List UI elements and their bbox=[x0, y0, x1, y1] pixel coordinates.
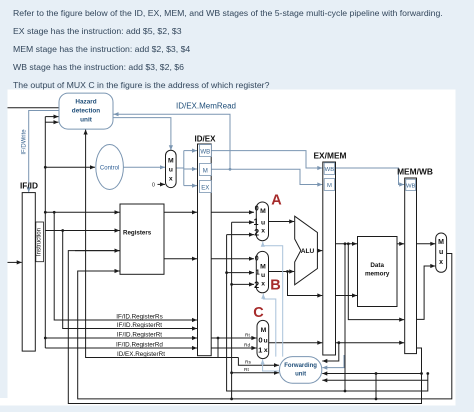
wire zero mux output to ID/EX control fields bbox=[176, 149, 197, 188]
label Rs at forwarding input bbox=[245, 360, 251, 366]
wire ID/EX.RegisterRt to mux C input 0 bbox=[211, 336, 256, 340]
label C red bbox=[253, 305, 264, 321]
arrow write register into Registers bbox=[75, 249, 120, 253]
mux C bbox=[257, 320, 269, 358]
wire mux A output to ALU bbox=[269, 219, 295, 223]
svg-text:IF/ID.RegisterRt: IF/ID.RegisterRt bbox=[117, 322, 162, 329]
wire PCWrite from left edge to hazard unit bbox=[8, 107, 60, 109]
svg-text:M: M bbox=[261, 327, 267, 334]
wire ALU result MEM/WB to WB mux input 1 bbox=[417, 264, 436, 320]
svg-text:1: 1 bbox=[256, 268, 260, 277]
register MEM/WB bbox=[397, 166, 433, 353]
label A red bbox=[271, 193, 282, 209]
wire IF/DWrite hazard unit to IF/ID write enable bbox=[27, 111, 59, 193]
svg-text:A: A bbox=[271, 193, 282, 209]
wire IF/ID.RegisterRt to ID/EX bbox=[45, 336, 197, 340]
wire WB forward vertical bbox=[230, 222, 233, 399]
wire opcode to Control bbox=[45, 165, 95, 169]
label IF/ID.RegisterRt line3 bbox=[117, 331, 162, 338]
svg-text:1: 1 bbox=[253, 217, 258, 227]
register ID/EX bbox=[195, 134, 217, 355]
svg-text:2: 2 bbox=[254, 280, 259, 290]
svg-text:M: M bbox=[260, 208, 266, 215]
wire MEM/WB.RegisterRd return to forwarding unit bbox=[322, 371, 421, 375]
white margin notch bottom-left bbox=[0, 398, 8, 406]
wire EX/MEM forward wrap bbox=[225, 235, 345, 391]
label ID/EX.RegisterRt line5 bbox=[117, 351, 165, 358]
svg-text:M: M bbox=[260, 263, 266, 270]
wire Control to zero mux bbox=[123, 165, 165, 169]
svg-text:IF/ID: IF/ID bbox=[20, 181, 38, 191]
svg-text:C: C bbox=[253, 305, 264, 321]
svg-text:ID/EX.RegisterRt: ID/EX.RegisterRt bbox=[117, 351, 165, 358]
label 0 constant bbox=[152, 183, 155, 189]
wire write-back data wrap-around bottom bbox=[78, 254, 452, 401]
wire IF/ID.RegisterRd to ID/EX bbox=[45, 346, 197, 350]
svg-text:MEM/WB: MEM/WB bbox=[397, 166, 433, 176]
wire ALU result into EX/MEM bbox=[317, 249, 322, 253]
wire WB stage register wrap into forwarding unit bbox=[322, 378, 428, 382]
wire store data EX/MEM to data memory write data bbox=[336, 293, 358, 297]
label Rt at mux C input 0 bbox=[245, 333, 250, 339]
mux C input digits bbox=[258, 336, 263, 355]
wire ID/EX.MemRead feedback to hazard unit bbox=[114, 112, 232, 171]
svg-text:ID/EX.MemRead: ID/EX.MemRead bbox=[176, 102, 236, 111]
svg-text:Registers: Registers bbox=[123, 229, 152, 236]
wire instruction to hazard unit input 2 bbox=[45, 120, 58, 124]
wire ID/EX M control to EX/MEM bbox=[211, 169, 322, 186]
svg-text:u: u bbox=[261, 272, 265, 279]
svg-text:Data: Data bbox=[370, 262, 384, 269]
svg-text:u: u bbox=[169, 166, 173, 173]
svg-text:Forwarding: Forwarding bbox=[284, 363, 317, 369]
label B red bbox=[270, 278, 280, 294]
svg-text:Control: Control bbox=[100, 166, 119, 172]
wire Registers read data 1 to ID/EX bbox=[164, 210, 197, 214]
svg-text:unit: unit bbox=[295, 372, 306, 378]
mux B input digits bbox=[254, 256, 260, 290]
wire EX/MEM RegisterRd to MEM/WB bbox=[336, 341, 405, 345]
wire ForwardA select to mux A bbox=[261, 242, 283, 357]
wire ID/EX.RegisterRd to mux C input 1 bbox=[211, 346, 256, 350]
svg-text:x: x bbox=[264, 347, 268, 354]
wire EX/MEM forward wrap right extension bbox=[344, 372, 430, 392]
svg-text:EX/MEM: EX/MEM bbox=[313, 150, 346, 160]
hazard detection unit U-HAZ bbox=[59, 93, 113, 129]
write-back mux bbox=[436, 233, 447, 272]
wire read register 2 (Rt) into Registers bbox=[45, 228, 119, 232]
wire IF/ID.RegisterRs tap bbox=[54, 212, 197, 322]
svg-text:0: 0 bbox=[258, 336, 262, 345]
svg-text:x: x bbox=[261, 280, 265, 287]
svg-text:Rt: Rt bbox=[244, 367, 249, 373]
register EX/MEM bbox=[313, 150, 346, 355]
wire ID/EX WB control to EX/MEM bbox=[211, 151, 322, 171]
svg-text:Rs: Rs bbox=[245, 360, 251, 366]
ALU U-ALU bbox=[295, 216, 318, 285]
arrow write data into Registers bbox=[84, 269, 120, 273]
wire mux C output to EX/MEM bbox=[269, 341, 323, 345]
wire ALU result EX/MEM to data memory address bbox=[336, 242, 358, 246]
wire EX/MEM M control down to forwarding unit bbox=[322, 355, 344, 370]
control unit ellipse bbox=[96, 145, 124, 190]
svg-text:x: x bbox=[261, 228, 265, 235]
wire read register 1 (Rs) into Registers bbox=[45, 210, 119, 214]
wire instruction to hazard unit input 1 bbox=[45, 115, 58, 119]
wire ID/EX read data 1 to mux A input 0 bbox=[211, 210, 254, 214]
wire ID/EX read data 2 to mux B input 0 bbox=[211, 257, 254, 261]
ID/EX EX field bbox=[199, 181, 211, 193]
svg-text:WB: WB bbox=[200, 148, 210, 155]
wire Registers read data 2 to ID/EX bbox=[164, 257, 197, 261]
wire mux C select bbox=[261, 359, 280, 371]
svg-text:Rt: Rt bbox=[245, 333, 250, 339]
label ID/EX.MemRead bbox=[176, 102, 236, 111]
wire store data to EX/MEM bbox=[288, 272, 323, 298]
question text block bbox=[13, 4, 443, 22]
svg-text:u: u bbox=[439, 249, 443, 256]
svg-text:0: 0 bbox=[255, 256, 259, 263]
svg-text:ALU: ALU bbox=[301, 248, 315, 255]
wire ID/EX.RegisterRs to forwarding unit bbox=[238, 358, 279, 368]
wire mux B output to ALU bbox=[269, 269, 295, 273]
label IF/ID.RegisterRt line2 bbox=[117, 322, 162, 329]
label Rd at mux C input 1 bbox=[244, 343, 250, 349]
register IF/ID bbox=[20, 181, 38, 351]
svg-text:M: M bbox=[203, 167, 208, 174]
control zero mux bbox=[166, 150, 177, 187]
wire write register number wrap-around bottom bbox=[68, 251, 423, 404]
label IF/DWrite bbox=[22, 129, 28, 155]
ID/EX M field bbox=[199, 164, 211, 176]
svg-text:IF/ID.RegisterRs: IF/ID.RegisterRs bbox=[116, 313, 163, 320]
svg-text:2: 2 bbox=[254, 228, 259, 238]
svg-text:detection: detection bbox=[72, 108, 101, 115]
wire WB forward to mux A input 1 bbox=[232, 220, 254, 224]
svg-text:x: x bbox=[169, 175, 173, 182]
svg-text:Instruction: Instruction bbox=[36, 228, 43, 256]
wire MEM/WB.RegisterRd link down to write-back wrap bbox=[375, 374, 377, 399]
wire MEM/WB read data to WB mux input 0 bbox=[417, 242, 436, 246]
svg-text:EX: EX bbox=[201, 184, 209, 191]
EX/MEM M field bbox=[324, 179, 334, 191]
wire EX/MEM WB control to MEM/WB bbox=[336, 168, 405, 187]
svg-text:WB: WB bbox=[406, 184, 416, 190]
label IF/ID.RegisterRs line1 bbox=[116, 313, 163, 320]
svg-text:Hazard: Hazard bbox=[75, 99, 96, 106]
wire ID/EX.RegisterRt extension to forwarding tap bbox=[218, 357, 238, 359]
wire ALU result under data memory to MEM/WB bbox=[348, 244, 404, 322]
wire EX/MEM forward to mux B input 1 bbox=[227, 271, 254, 275]
wire EX/MEM forward to mux A input 2 bbox=[227, 233, 254, 237]
wire data memory read data to MEM/WB bbox=[397, 242, 404, 246]
wire instruction into IF/ID bbox=[8, 260, 22, 264]
wire ID/EX.RegisterRt to hazard detection unit bbox=[84, 130, 220, 358]
svg-text:Rd: Rd bbox=[244, 343, 250, 349]
svg-text:0: 0 bbox=[152, 183, 155, 189]
svg-text:IF/DWrite: IF/DWrite bbox=[22, 129, 28, 155]
label IF/ID.RegisterRd line4 bbox=[116, 341, 163, 348]
data memory box bbox=[358, 237, 398, 307]
wire zero constant to mux bbox=[158, 182, 166, 186]
svg-text:IF/ID.RegisterRt: IF/ID.RegisterRt bbox=[117, 331, 162, 338]
ID/EX WB field bbox=[199, 145, 211, 157]
wire ID/EX.RegisterRt to forwarding unit bbox=[232, 371, 279, 375]
label Rt at forwarding input bbox=[244, 367, 249, 373]
svg-text:M: M bbox=[168, 157, 174, 164]
wire instruction bus vertical from hazard unit down bbox=[44, 117, 47, 348]
forwarding unit U-FWD bbox=[280, 357, 322, 384]
svg-text:ID/EX: ID/EX bbox=[195, 134, 217, 143]
registers file box bbox=[120, 204, 164, 274]
svg-text:u: u bbox=[264, 337, 268, 344]
wire hazard unit to control mux select bbox=[113, 118, 173, 151]
svg-text:memory: memory bbox=[365, 270, 390, 277]
mux A input digits bbox=[253, 203, 259, 237]
svg-text:x: x bbox=[439, 259, 443, 266]
svg-text:WB: WB bbox=[325, 167, 335, 173]
forwarding mux A bbox=[256, 202, 268, 241]
EX/MEM WB field bbox=[324, 163, 334, 175]
wire EX/MEM.RegisterRd to forwarding unit bbox=[322, 343, 339, 363]
wire IF/ID.RegisterRt tap bbox=[63, 231, 197, 331]
svg-text:unit: unit bbox=[80, 117, 93, 124]
wire WB forward to mux B input 2 bbox=[232, 282, 254, 286]
svg-text:M: M bbox=[327, 183, 332, 189]
svg-text:IF/ID.RegisterRd: IF/ID.RegisterRd bbox=[116, 341, 163, 348]
svg-text:u: u bbox=[261, 220, 265, 227]
MEM/WB WB field bbox=[406, 179, 416, 190]
svg-text:B: B bbox=[270, 278, 280, 294]
svg-text:0: 0 bbox=[255, 203, 259, 212]
svg-text:M: M bbox=[438, 239, 444, 246]
instruction field box bbox=[36, 222, 44, 262]
white figure background bbox=[8, 90, 456, 406]
wire ForwardB select to mux B bbox=[261, 294, 276, 357]
forwarding mux B bbox=[256, 251, 268, 292]
